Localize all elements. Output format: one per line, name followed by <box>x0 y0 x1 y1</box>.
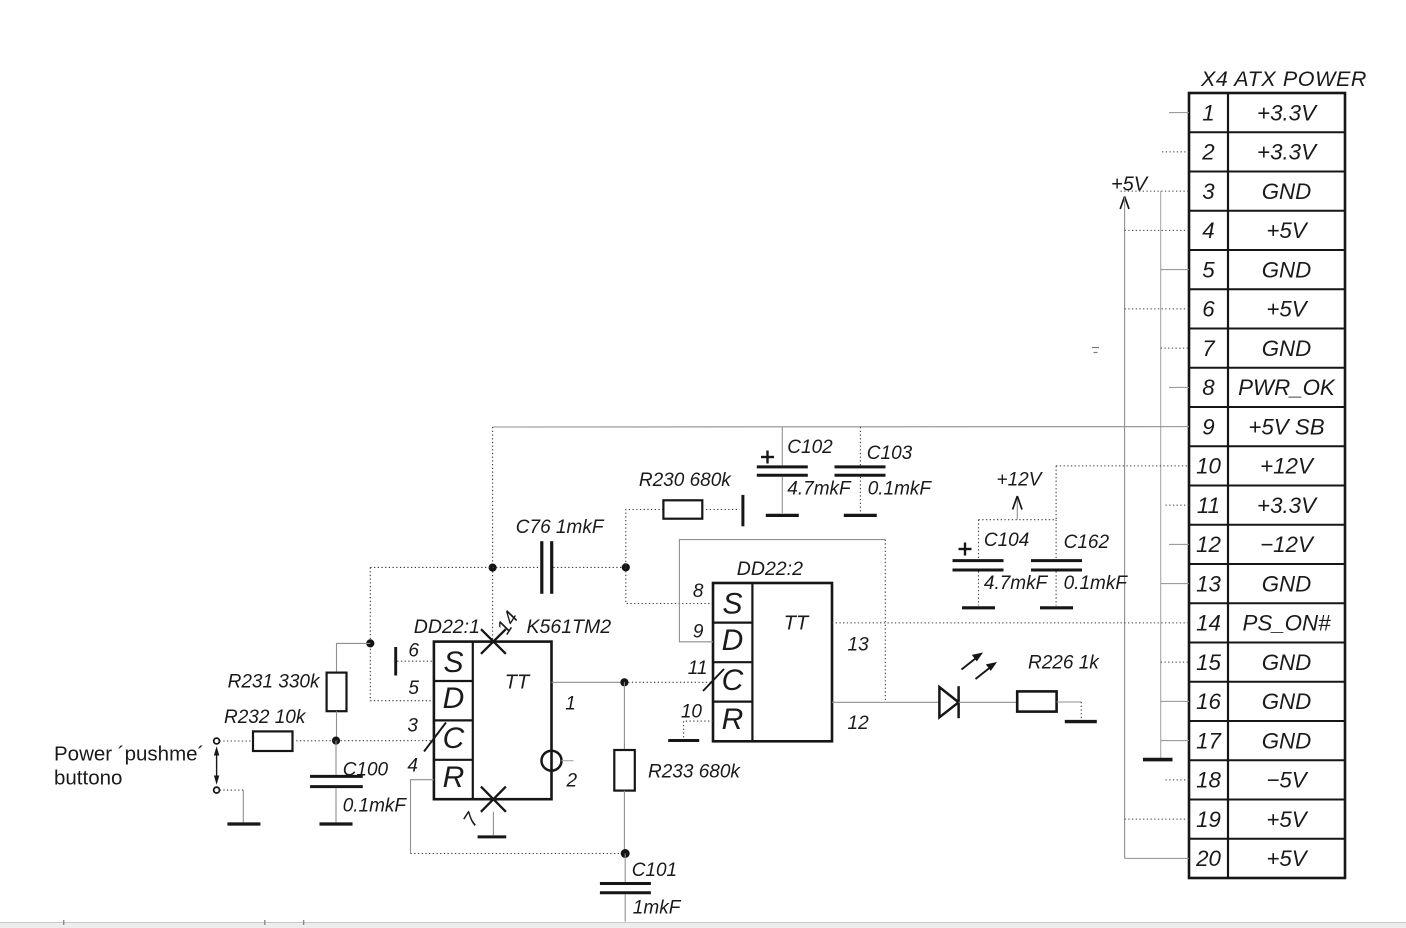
svg-text:5: 5 <box>1202 257 1215 282</box>
svg-text:X4 ATX POWER: X4 ATX POWER <box>1200 67 1367 91</box>
svg-text:+3.3V: +3.3V <box>1257 493 1318 518</box>
svg-text:9: 9 <box>1202 414 1214 439</box>
svg-text:R: R <box>722 703 744 736</box>
connector X4 row line 11 <box>1189 524 1345 526</box>
svg-text:+5V: +5V <box>1266 807 1308 832</box>
svg-text:D: D <box>443 682 465 715</box>
svg-text:13: 13 <box>848 634 870 655</box>
svg-text:GND: GND <box>1262 689 1312 714</box>
capacitor C102 polarity + <box>761 456 774 458</box>
svg-text:R232 10k: R232 10k <box>224 707 307 728</box>
ground of DD22:1 pin 7 <box>478 835 507 838</box>
svg-text:R: R <box>443 761 465 794</box>
capacitor C101 plates <box>600 882 651 885</box>
wire stub to pin 13 <box>1161 583 1189 585</box>
svg-text:12: 12 <box>848 713 870 734</box>
svg-text:4: 4 <box>1202 218 1214 243</box>
svg-text:15: 15 <box>1196 650 1221 675</box>
wire pin 1 to DD22:2 clock <box>624 681 713 683</box>
connector X4 row line 15 <box>1189 681 1345 683</box>
wire switch bottom to ground <box>220 789 244 791</box>
wire stub to pin 8 <box>1169 386 1189 388</box>
svg-text:TT: TT <box>784 612 810 634</box>
svg-text:R230 680k: R230 680k <box>639 470 732 491</box>
svg-text:−12V: −12V <box>1260 532 1315 557</box>
svg-text:GND: GND <box>1262 257 1312 282</box>
node junction R232/R231/C100 <box>332 737 340 745</box>
connector X4 row line 4 <box>1189 249 1345 251</box>
wire R232 to C input pin 3 <box>293 740 434 742</box>
svg-text:1: 1 <box>1202 100 1214 125</box>
wire stub to pin 16 <box>1161 700 1189 702</box>
svg-text:+5V: +5V <box>1266 218 1308 243</box>
wire switch to R232 <box>220 740 253 742</box>
capacitor C100 plates <box>310 775 363 778</box>
connector X4 row line 17 <box>1189 759 1345 761</box>
svg-text:+3.3V: +3.3V <box>1257 140 1318 165</box>
wire LED to R226 <box>959 701 1018 703</box>
capacitor C162 bottom wire <box>1055 572 1057 606</box>
svg-text:+5V: +5V <box>1266 297 1308 322</box>
wire pin 7 to ground <box>492 812 494 835</box>
node junction C76/R230/S <box>622 563 630 571</box>
wire +5V vertical rail <box>1124 198 1126 859</box>
wire +5V rail to pin 20 <box>1125 857 1189 859</box>
node junction pin1/R233 <box>620 678 628 686</box>
svg-text:10: 10 <box>1196 454 1221 479</box>
svg-text:6: 6 <box>1202 297 1215 322</box>
connector X4 row line 3 <box>1189 210 1345 212</box>
capacitor C100 bottom wire <box>335 788 337 822</box>
svg-text:4: 4 <box>407 756 418 777</box>
capacitor C102 plates <box>757 465 808 468</box>
svg-text:S: S <box>443 646 463 679</box>
wire stub to pin 2 <box>1162 151 1189 153</box>
LED cathode bar <box>957 686 960 718</box>
svg-text:8: 8 <box>693 581 704 602</box>
wire stub to pin 7 <box>1161 347 1189 349</box>
connector X4 row line 13 <box>1189 602 1345 604</box>
pin 2 inverted output circle <box>542 751 562 771</box>
svg-text:buttono: buttono <box>54 767 122 790</box>
connector X4 row line 14 <box>1189 641 1345 643</box>
flip-flop DD22:1 body <box>434 642 552 800</box>
pin 7 cross mark <box>481 787 506 812</box>
svg-text:TT: TT <box>505 671 531 693</box>
resistor R231 body <box>327 673 347 712</box>
wire C76 net right segment <box>553 566 625 568</box>
svg-text:4.7mkF: 4.7mkF <box>984 573 1049 594</box>
capacitor C103 top wire <box>859 427 861 465</box>
svg-text:D: D <box>722 624 744 657</box>
wire pin 4 R to C101 node <box>411 780 434 854</box>
svg-text:GND: GND <box>1262 179 1312 204</box>
wire pin 10 +12V line <box>1056 465 1189 467</box>
svg-text:GND: GND <box>1262 650 1312 675</box>
svg-text:PWR_OK: PWR_OK <box>1238 375 1336 400</box>
wire stub to pin 1 <box>1169 112 1189 114</box>
svg-text:19: 19 <box>1196 807 1221 832</box>
svg-text:C: C <box>722 664 744 697</box>
svg-text:C100: C100 <box>343 760 389 781</box>
flip-flop DD22:2 pin column divider <box>751 583 753 741</box>
node junction R231 top <box>366 639 374 647</box>
svg-text:17: 17 <box>1196 728 1222 753</box>
svg-text:C76 1mkF: C76 1mkF <box>516 517 605 538</box>
wire C101 bottom <box>624 894 626 921</box>
resistor R232 body <box>253 731 293 751</box>
svg-text:C102: C102 <box>787 437 833 458</box>
ground of C103 <box>844 514 877 517</box>
capacitor C104 plates <box>953 559 1004 562</box>
wire R226 to ground <box>1057 701 1082 703</box>
ground bar of GND rail <box>1143 758 1173 762</box>
connector X4 row line 10 <box>1189 484 1345 486</box>
connector X4 column divider <box>1227 93 1229 878</box>
pin 11 dynamic input slash <box>703 669 724 691</box>
svg-text:C162: C162 <box>1064 532 1110 553</box>
R230 open terminal bar <box>741 495 744 526</box>
capacitor C162 top wire <box>1055 520 1057 559</box>
svg-text:+12V: +12V <box>1260 454 1315 479</box>
ground of switch <box>227 822 260 825</box>
capacitor C76 plates <box>540 541 543 594</box>
svg-text:18: 18 <box>1196 768 1221 793</box>
svg-text:+5V SB: +5V SB <box>1248 414 1324 439</box>
ground of C162 <box>1040 606 1073 609</box>
svg-text:14: 14 <box>1196 611 1221 636</box>
svg-text:11: 11 <box>1197 493 1220 518</box>
pin 14 power cross mark <box>481 629 506 654</box>
resistor R231 bottom wire <box>336 711 338 740</box>
connector X4 row line 7 <box>1189 367 1345 369</box>
resistor R226 body <box>1017 691 1056 711</box>
wire from C76 line down to D input <box>370 567 434 700</box>
svg-text:0.1mkF: 0.1mkF <box>343 795 408 816</box>
ground of C102 <box>766 514 799 517</box>
capacitor C103 bottom wire <box>859 477 861 513</box>
wire stub to pin 3 <box>1121 190 1190 192</box>
svg-text:S: S <box>722 588 742 621</box>
svg-text:9: 9 <box>693 622 704 643</box>
svg-text:4.7mkF: 4.7mkF <box>787 478 852 499</box>
ground of C104 <box>962 606 995 609</box>
wire R233 top <box>623 682 625 750</box>
capacitor C104 bottom wire <box>978 572 980 606</box>
wire stub to pin 12 <box>1169 543 1189 545</box>
svg-text:R226 1k: R226 1k <box>1028 653 1100 674</box>
connector X4 row line 6 <box>1189 327 1345 329</box>
window bottom strip <box>0 923 1406 928</box>
svg-text:+5V: +5V <box>1266 846 1308 871</box>
wire feedback Q-bar to D <box>679 540 885 642</box>
svg-text:5: 5 <box>408 678 419 699</box>
svg-text:Power ´pushme´: Power ´pushme´ <box>54 742 204 765</box>
wire stub to pin 19 <box>1125 818 1189 820</box>
connector X4 row line 8 <box>1189 406 1345 408</box>
wire stub to pin 17 <box>1161 740 1189 742</box>
switch bottom terminal <box>214 787 220 793</box>
connector X4 row line 2 <box>1189 170 1345 172</box>
svg-text:+12V: +12V <box>997 470 1044 491</box>
svg-text:8: 8 <box>1202 375 1215 400</box>
wire +5V SB vertical drop to DD22:1 pin 14 <box>492 427 494 641</box>
svg-text:1: 1 <box>565 694 576 715</box>
wire DD22:1 output pin 1 <box>552 681 625 683</box>
svg-text:K561TM2: K561TM2 <box>527 616 612 638</box>
wire DD22:2 output pin 13 to PS_ON# <box>832 622 1189 624</box>
resistor R233 body <box>614 750 635 791</box>
svg-text:16: 16 <box>1196 689 1221 714</box>
svg-text:13: 13 <box>1196 571 1221 596</box>
wire +12V drop to capacitors <box>1055 466 1057 520</box>
connector X4 table frame <box>1189 93 1345 878</box>
ground of DD22:2 pin 10 <box>668 739 699 742</box>
svg-text:0.1mkF: 0.1mkF <box>868 478 933 499</box>
connector X4 row line 12 <box>1189 563 1345 565</box>
wire stub to pin 6 <box>1125 308 1189 310</box>
wire DD22:2 output pin 12 <box>832 701 939 703</box>
svg-text:−5V: −5V <box>1266 768 1308 793</box>
svg-text:2: 2 <box>566 770 578 791</box>
svg-text:GND: GND <box>1262 728 1312 753</box>
svg-text:PS_ON#: PS_ON# <box>1243 611 1332 636</box>
capacitor C162 plates <box>1031 559 1082 562</box>
node junction R233/C101/pin4 <box>621 849 630 858</box>
svg-text:C: C <box>443 722 465 755</box>
resistor R231 top wire <box>337 643 371 672</box>
wire stub to pin 5 <box>1161 269 1189 271</box>
wire stub to pin 11 <box>1166 504 1190 506</box>
connector X4 row line 18 <box>1189 798 1345 800</box>
wire pin 2 stub <box>562 760 574 762</box>
flip-flop DD22:1 cell lines <box>434 680 473 682</box>
wire R230 left <box>626 510 664 568</box>
node junction +5VSB / C76 line <box>489 564 497 572</box>
flip-flop DD22:2 cell lines <box>713 621 752 623</box>
connector X4 row line 19 <box>1189 838 1345 840</box>
LED VD anode wire is pin12 wire; LED triangle <box>939 687 958 717</box>
wire stub to pin 15 <box>1161 661 1189 663</box>
wire pin 6 stub <box>397 660 434 662</box>
flip-flop DD22:1 pin column divider <box>472 642 474 800</box>
svg-text:GND: GND <box>1262 571 1312 596</box>
svg-text:7: 7 <box>1202 336 1216 361</box>
svg-text:20: 20 <box>1195 846 1221 871</box>
svg-text:10: 10 <box>681 702 703 723</box>
switch actuator double arrow <box>216 751 218 781</box>
power +5V arrow <box>1120 197 1124 210</box>
svg-text:3: 3 <box>407 715 418 736</box>
power +12V arrow <box>1016 497 1018 520</box>
svg-text:C104: C104 <box>984 530 1029 551</box>
svg-text:+5V: +5V <box>1111 173 1149 195</box>
capacitor C102 top wire <box>781 427 783 465</box>
wire stub to pin 4 <box>1125 229 1189 231</box>
flip-flop DD22:2 body <box>713 583 832 741</box>
connector X4 row line 9 <box>1189 445 1345 447</box>
svg-text:GND: GND <box>1262 336 1312 361</box>
svg-text:3: 3 <box>1202 179 1215 204</box>
wire GND vertical rail <box>1160 191 1162 758</box>
wire junction to DD22:2 S input <box>626 567 713 603</box>
connector X4 row line 1 <box>1189 131 1345 133</box>
pin 6 open terminal bar <box>394 647 397 676</box>
switch top terminal <box>214 738 220 744</box>
svg-text:DD22:2: DD22:2 <box>737 558 803 580</box>
wire +5V SB rail to pin 9 <box>493 426 1189 428</box>
svg-text:R231 330k: R231 330k <box>228 671 321 692</box>
svg-text:C103: C103 <box>867 443 913 464</box>
svg-text:DD22:1: DD22:1 <box>414 616 480 638</box>
svg-text:0.1mkF: 0.1mkF <box>1064 573 1129 594</box>
connector X4 row line 5 <box>1189 288 1345 290</box>
connector X4 row line 16 <box>1189 720 1345 722</box>
noise mark <box>1092 347 1099 349</box>
capacitor C104 top wire <box>978 520 980 559</box>
svg-text:C101: C101 <box>632 860 677 881</box>
svg-text:12: 12 <box>1196 532 1221 557</box>
svg-text:11: 11 <box>688 658 708 679</box>
capacitor C102 bottom wire <box>781 477 783 513</box>
capacitor C100 top wire <box>335 741 337 775</box>
capacitor C103 plates <box>835 465 886 468</box>
resistor R230 body <box>663 500 702 518</box>
ground of C100 <box>320 822 353 825</box>
LED light arrows <box>962 656 979 670</box>
svg-text:+3.3V: +3.3V <box>1257 100 1318 125</box>
wire R230 right <box>702 509 739 511</box>
wire pin 10 R to ground <box>684 721 713 739</box>
wire +12V rail C104-C162 <box>979 519 1057 521</box>
wire stub to pin 18 <box>1166 779 1190 781</box>
pin 3 dynamic input slash <box>424 723 446 752</box>
wire R233 bottom <box>623 791 625 854</box>
wire C76 net left segment <box>370 566 540 568</box>
ground of R226 <box>1065 720 1097 723</box>
svg-text:1mkF: 1mkF <box>633 898 682 919</box>
svg-text:6: 6 <box>408 640 419 661</box>
wire C101 top <box>624 854 626 882</box>
svg-text:R233 680k: R233 680k <box>648 761 741 782</box>
svg-text:2: 2 <box>1201 140 1215 165</box>
